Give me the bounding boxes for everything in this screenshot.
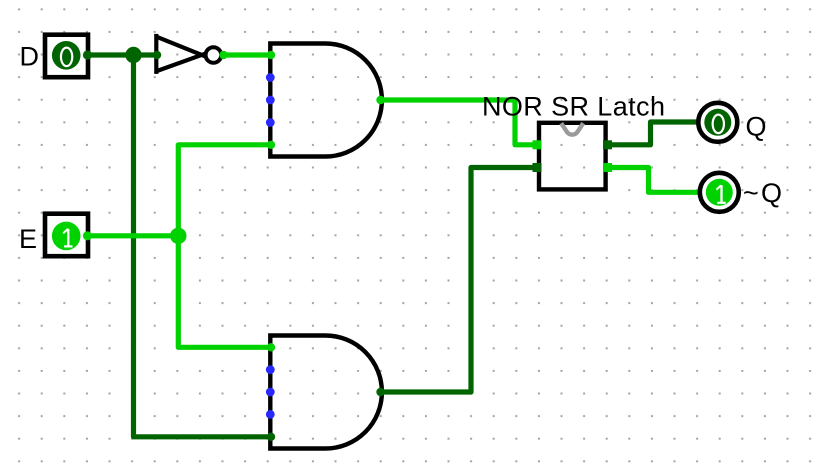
- port dot at NOT gate output: [219, 51, 227, 59]
- AND gate U3 (bottom): [270, 336, 382, 449]
- floating input dots AND1: [266, 73, 275, 127]
- port dot at AND2 input 5: [267, 433, 275, 441]
- input pin D value circle: [52, 41, 81, 70]
- wire D pin to NOT gate input: [89, 52, 158, 57]
- label D: [20, 42, 40, 72]
- subcircuit U4 NOR SR Latch box: [539, 123, 606, 190]
- port dot at AND1 input 5: [267, 141, 275, 149]
- wire AND2 output to latch R input: [380, 168, 538, 393]
- output probe Q: [698, 103, 737, 142]
- port dot at AND1 output: [376, 96, 384, 104]
- svg-text:~Q: ~Q: [743, 178, 784, 208]
- label ~Q: [743, 178, 784, 208]
- label E: [19, 224, 37, 254]
- svg-text:Q: Q: [746, 112, 767, 142]
- wire E junction up to AND1 bottom input: [178, 145, 271, 236]
- svg-text:NOR SR Latch: NOR SR Latch: [482, 92, 665, 122]
- port dot at AND1 input 1: [267, 51, 275, 59]
- AND gate U2 (top): [270, 44, 382, 157]
- input pin D box: [45, 35, 88, 77]
- port dot at AND2 input 1: [267, 343, 275, 351]
- label Q: [746, 112, 767, 142]
- port dot at D pin output: [83, 50, 92, 59]
- label NOR SR Latch: [482, 92, 665, 122]
- orientation notch: [561, 123, 583, 135]
- latch pin S (left top): [533, 140, 542, 149]
- svg-text:E: E: [19, 224, 37, 254]
- wire NOT output to AND1 top input: [223, 52, 271, 57]
- wire latch ~Q output to probe ~Q: [607, 168, 700, 193]
- NOT gate U1: [155, 34, 221, 74]
- latch pin Q (right top): [603, 140, 612, 149]
- wire AND1 output to latch S input: [380, 100, 538, 145]
- wire E pin to junction: [89, 233, 179, 238]
- port dot at AND2 output: [376, 388, 384, 396]
- floating input dots AND2: [266, 365, 275, 419]
- wire latch Q output to probe Q: [607, 122, 699, 145]
- port dot at E pin output: [83, 231, 92, 240]
- output probe ~Q: [700, 173, 739, 212]
- port dot at NOT gate input: [153, 51, 161, 59]
- wire E junction down to AND2 top input: [178, 236, 271, 347]
- wire junction down to AND2 lower input: [134, 55, 272, 437]
- node junction on E wire: [170, 228, 186, 244]
- svg-text:D: D: [20, 42, 40, 72]
- node junction on D wire: [125, 47, 141, 63]
- input pin E value circle: [52, 222, 81, 251]
- input pin E box: [45, 214, 88, 257]
- latch pin ~Q (right bottom): [603, 163, 612, 172]
- latch pin R (left bottom): [533, 163, 542, 172]
